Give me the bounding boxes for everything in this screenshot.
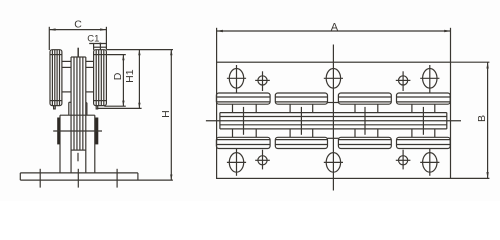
svg-text:D: D bbox=[112, 72, 124, 80]
svg-text:H1: H1 bbox=[124, 69, 136, 83]
svg-text:A: A bbox=[331, 21, 339, 33]
svg-text:C: C bbox=[74, 19, 82, 31]
svg-text:H: H bbox=[160, 110, 172, 118]
svg-text:B: B bbox=[476, 115, 488, 122]
svg-text:C1: C1 bbox=[87, 34, 99, 45]
